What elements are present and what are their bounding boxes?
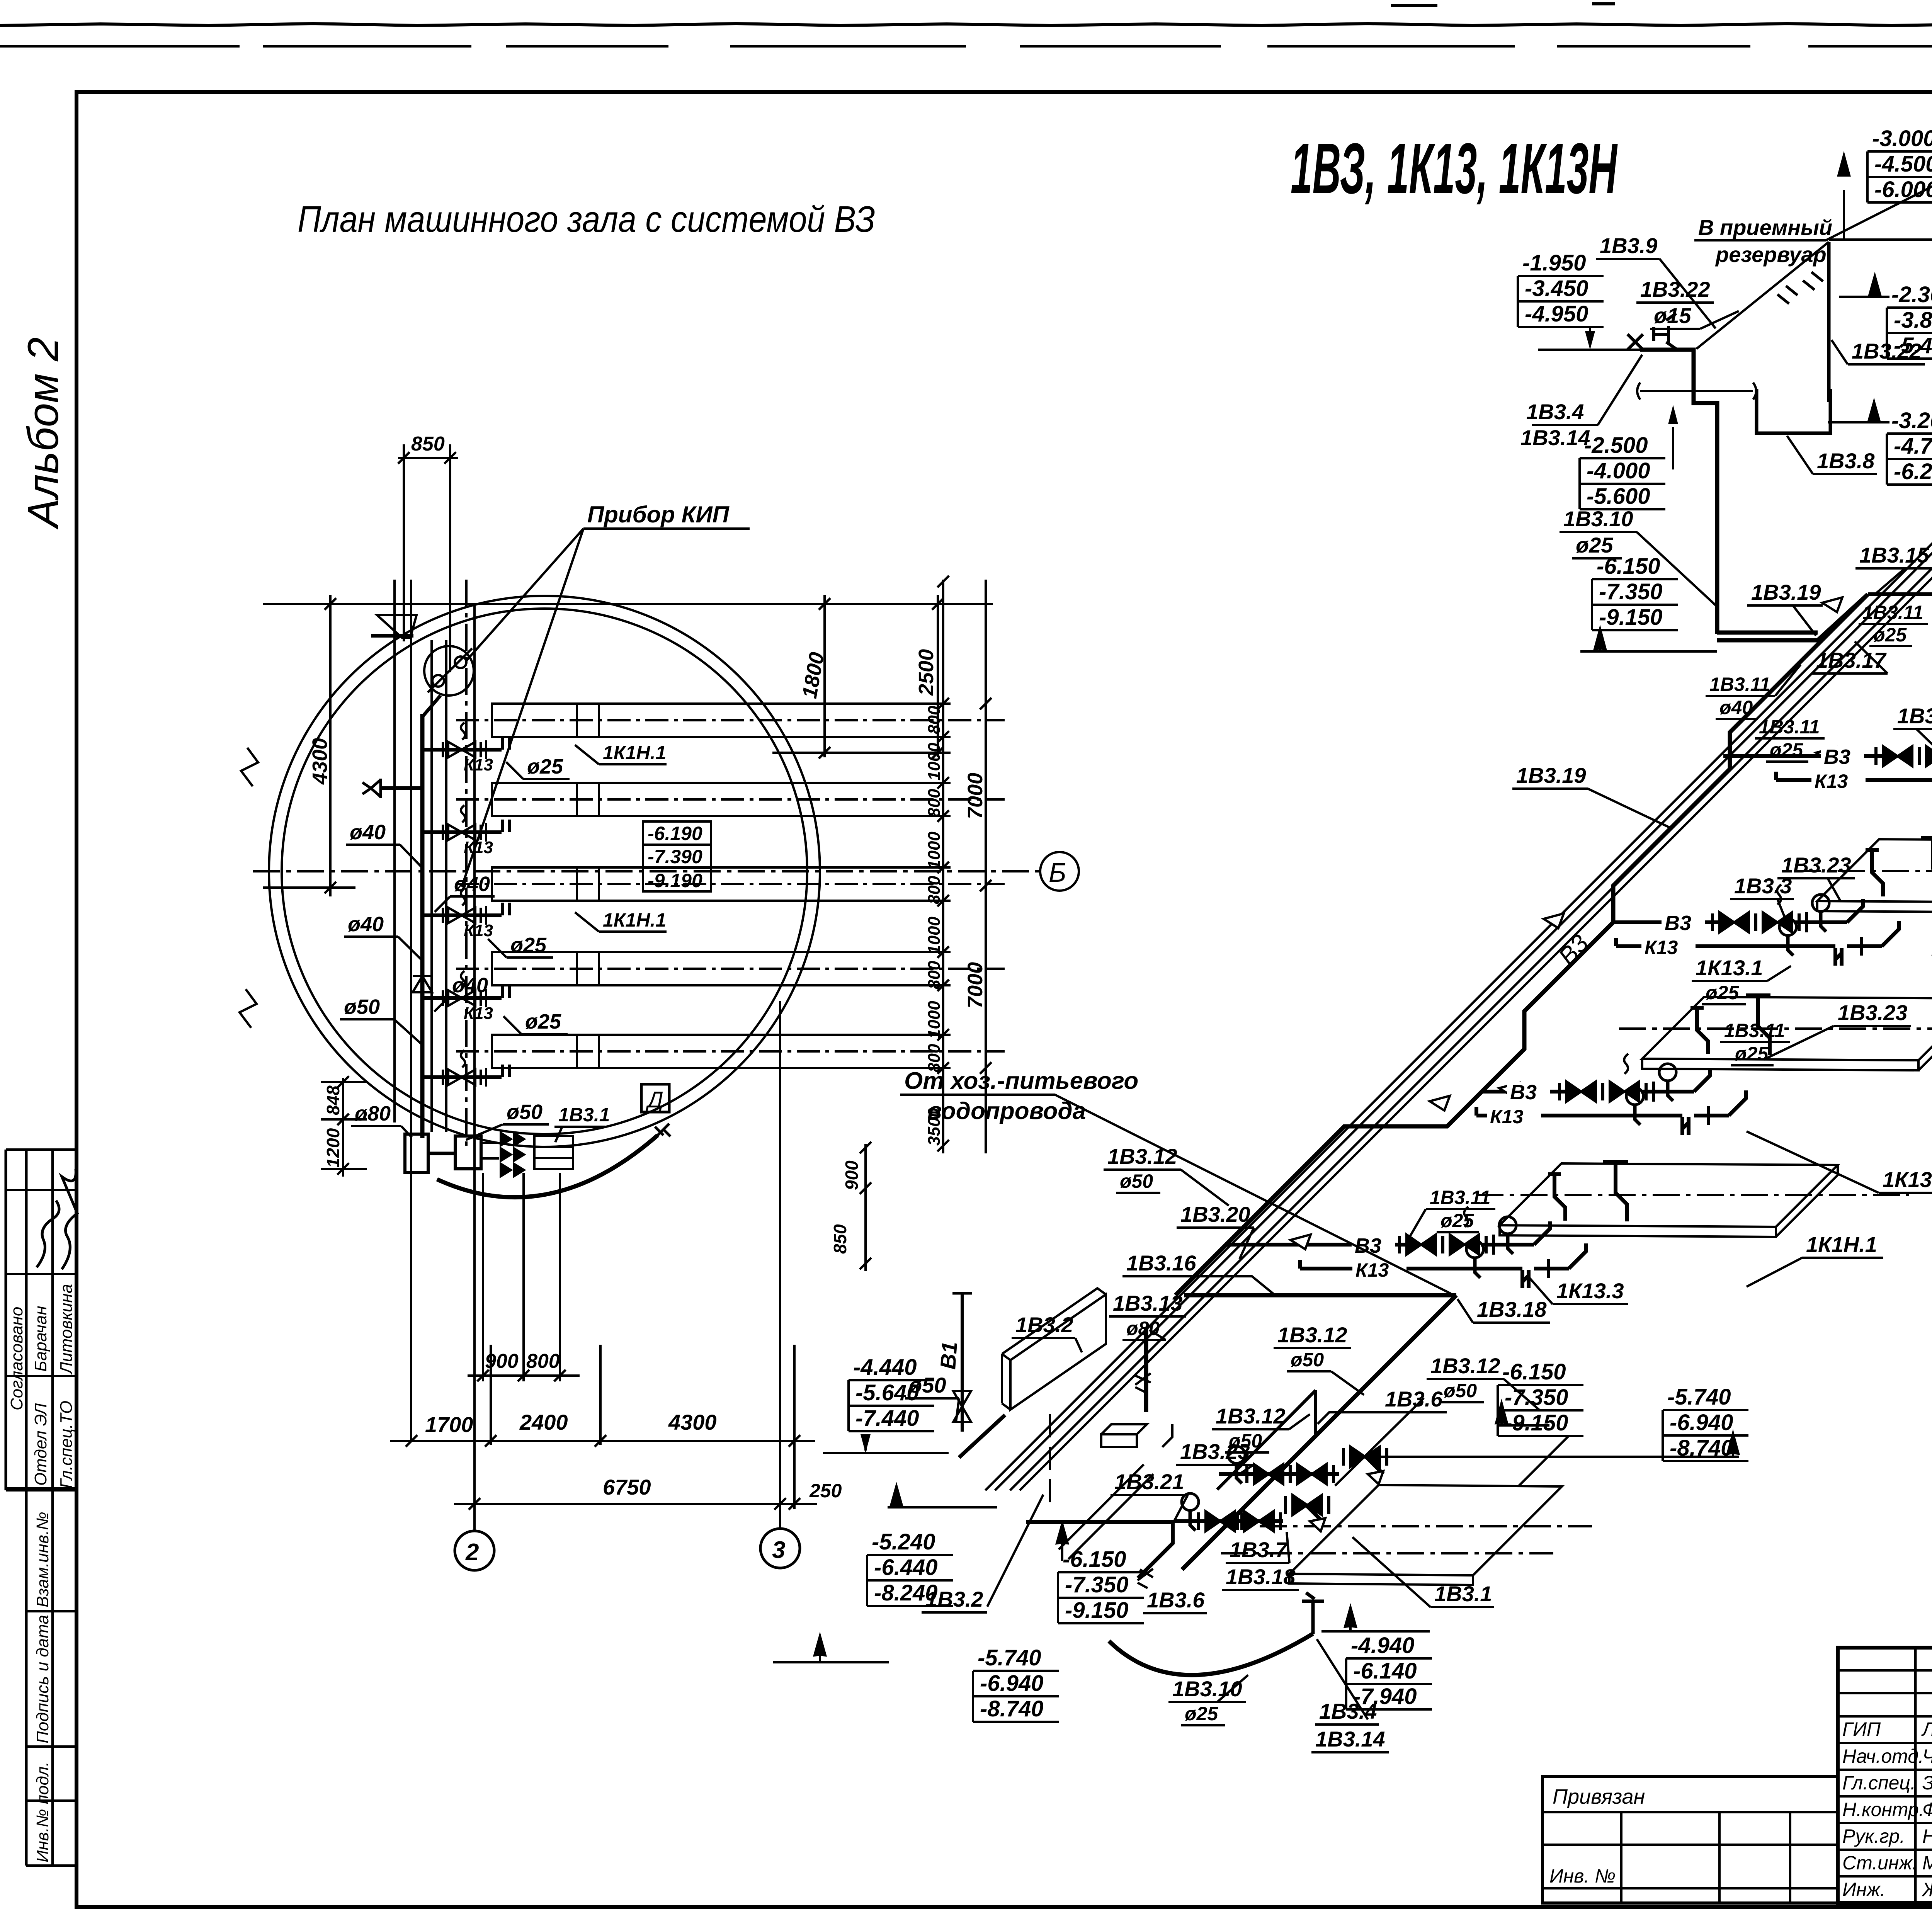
svg-text:2: 2 — [465, 1539, 479, 1566]
svg-text:1К1Н.1: 1К1Н.1 — [1806, 1232, 1877, 1257]
pump unit rectangles 1K1H.1 x5 — [492, 704, 599, 1068]
svg-text:-6.940: -6.940 — [980, 1671, 1043, 1696]
pump base slab unit 3 — [1794, 838, 1932, 913]
svg-text:-7.350: -7.350 — [1599, 579, 1662, 604]
svg-text:ø80: ø80 — [1126, 1318, 1160, 1339]
ring main thick arc — [437, 1135, 658, 1197]
svg-text:-2.500: -2.500 — [1584, 433, 1648, 458]
svg-text:250: 250 — [809, 1480, 842, 1502]
svg-text:-7.440: -7.440 — [855, 1406, 919, 1431]
svg-text:ø15: ø15 — [1654, 303, 1691, 328]
svg-text:-7.350: -7.350 — [1065, 1572, 1128, 1597]
KIP instrument circle — [424, 646, 474, 696]
dim 848 / 1200 left bottom — [342, 1078, 344, 1177]
svg-text:Инж.: Инж. — [1842, 1879, 1886, 1900]
svg-text:1В3.6: 1В3.6 — [1147, 1588, 1205, 1612]
svg-text:1В3.1: 1В3.1 — [558, 1104, 610, 1126]
column bubble 2 — [455, 1531, 494, 1570]
svg-text:В3: В3 — [1824, 745, 1850, 769]
elevation stack -2.300 — [1887, 282, 1932, 359]
svg-text:Нарыжная: Нарыжная — [1922, 1825, 1932, 1847]
svg-text:-4.500: -4.500 — [1874, 151, 1932, 177]
unit4 flow arrow — [1499, 1083, 1519, 1097]
dim extension x=1270 — [490, 1345, 492, 1445]
svg-text:1В3.5: 1В3.5 — [1897, 704, 1932, 728]
flanged pipe section near 1V3.8 — [1637, 383, 1756, 400]
check valve pairs x3 — [501, 1133, 524, 1176]
svg-text:ø50: ø50 — [344, 995, 380, 1019]
pipe 1V3.16 horizontal — [1184, 1293, 1456, 1298]
svg-text:В3: В3 — [1355, 1234, 1381, 1257]
elevation table -6.190 — [643, 821, 711, 891]
K13 branch row 2 — [422, 805, 509, 857]
dim 4300 left — [329, 595, 332, 896]
elevation stack -6.150 left bottom — [1058, 1547, 1144, 1623]
horizontal 1V3.19 link — [1717, 594, 1868, 640]
svg-text:4300: 4300 — [668, 1410, 717, 1434]
top water tap 1V3.4 piping — [1640, 350, 1818, 634]
pipe 1V3.12 diagonal — [1182, 1295, 1456, 1570]
1V3.1 valve row A — [1219, 1446, 1387, 1484]
pipe rack bundle line 4 — [1020, 358, 1932, 1490]
1V3.1 station slab — [1289, 1485, 1562, 1575]
svg-text:К13: К13 — [1815, 770, 1848, 792]
1V3.12 branch peak — [1217, 1390, 1316, 1490]
B1 supply vertical — [961, 1293, 964, 1432]
svg-text:1ВЗ, 1К13, 1К13Н: 1ВЗ, 1К13, 1К13Н — [1291, 129, 1618, 209]
svg-text:ø25: ø25 — [1735, 1043, 1769, 1065]
svg-text:-5.600: -5.600 — [1587, 484, 1650, 509]
svg-text:1В3.12: 1В3.12 — [1107, 1144, 1177, 1168]
svg-text:1В3.12: 1В3.12 — [1216, 1404, 1286, 1428]
svg-text:Б: Б — [1049, 857, 1066, 888]
svg-text:ø25: ø25 — [1770, 739, 1803, 761]
svg-text:848: 848 — [323, 1085, 343, 1115]
elevation stack -3.200 — [1887, 408, 1932, 485]
svg-text:План машинного зала с системой: План машинного зала с системой ВЗ — [298, 199, 875, 240]
svg-text:7000: 7000 — [964, 773, 987, 819]
svg-text:1В3.22: 1В3.22 — [1640, 277, 1710, 301]
svg-text:-5.740: -5.740 — [978, 1645, 1041, 1670]
svg-text:1К1Н.1: 1К1Н.1 — [603, 742, 666, 764]
svg-text:1200: 1200 — [323, 1128, 343, 1168]
label Ot khoz-pityevogo vodoprovoda — [904, 1068, 1138, 1124]
svg-text:ø25: ø25 — [1873, 624, 1907, 646]
svg-text:6750: 6750 — [603, 1475, 651, 1499]
svg-text:1В3.11: 1В3.11 — [1862, 602, 1923, 623]
svg-text:ø40: ø40 — [348, 913, 384, 936]
svg-text:3: 3 — [772, 1537, 785, 1563]
svg-text:1000: 1000 — [925, 917, 944, 954]
link B1 to panel — [959, 1415, 1005, 1458]
dim extension x=2056 — [793, 1345, 796, 1509]
svg-text:-6.150: -6.150 — [1502, 1359, 1566, 1384]
svg-text:ø40: ø40 — [1719, 697, 1753, 718]
unit2 V3 branch pipe — [1723, 754, 1887, 758]
svg-text:-6.000: -6.000 — [1874, 177, 1932, 202]
svg-text:-4.700: -4.700 — [1894, 434, 1932, 459]
B1 valve — [953, 1391, 971, 1422]
riser 1V3.22 vertical — [1827, 242, 1831, 402]
svg-text:1В3.11: 1В3.11 — [1724, 1020, 1785, 1041]
svg-text:850: 850 — [411, 433, 445, 455]
svg-text:-6.200: -6.200 — [1894, 459, 1932, 484]
elevation stack -5.240 — [867, 1529, 953, 1606]
panel 1V3.2 — [1010, 1294, 1106, 1410]
svg-text:1В3.12: 1В3.12 — [1430, 1354, 1500, 1378]
svg-text:-6.940: -6.940 — [1670, 1410, 1733, 1435]
svg-text:1000: 1000 — [925, 832, 944, 869]
svg-text:К13: К13 — [1355, 1259, 1389, 1281]
svg-text:Согласовано: Согласовано — [7, 1307, 26, 1410]
svg-text:-3.450: -3.450 — [1525, 276, 1588, 301]
pipe channel double line — [432, 640, 446, 1132]
elevation stack -1.950 — [1518, 250, 1604, 327]
flange pair on 1V3.22 — [1777, 272, 1823, 304]
svg-text:Журавлева: Журавлева — [1921, 1879, 1932, 1900]
bottom vessel 2 — [455, 1136, 481, 1169]
svg-text:Рук.гр.: Рук.гр. — [1842, 1825, 1905, 1847]
pipe chase channel lines — [1059, 1464, 1153, 1559]
unit5 V3 label — [1352, 1234, 1395, 1257]
svg-text:800: 800 — [925, 789, 944, 817]
svg-text:ø40: ø40 — [452, 974, 488, 997]
staff rows — [1838, 1743, 1932, 1876]
svg-text:1В3.2: 1В3.2 — [1015, 1313, 1073, 1337]
right dim column ticks 800/1000 — [942, 580, 944, 1153]
svg-text:Чмелев: Чмелев — [1922, 1745, 1932, 1767]
unit5 V3 branch pipe — [1226, 1243, 1410, 1247]
svg-text:-6.190: -6.190 — [648, 823, 702, 844]
svg-text:-6.140: -6.140 — [1353, 1658, 1417, 1684]
main riser pipe thick vertical — [420, 714, 425, 1138]
svg-text:-8.740: -8.740 — [980, 1696, 1043, 1721]
unit5 K13 label — [1352, 1259, 1406, 1281]
svg-text:К13: К13 — [1490, 1106, 1524, 1128]
svg-text:-2.300: -2.300 — [1891, 282, 1932, 307]
staff columns — [1915, 1648, 1932, 1903]
svg-text:К13: К13 — [1645, 937, 1678, 958]
up arrow to -3.000 stack — [1838, 155, 1849, 240]
svg-text:ø50: ø50 — [1444, 1380, 1477, 1401]
svg-text:ø50: ø50 — [1120, 1170, 1153, 1192]
svg-text:-3.200: -3.200 — [1891, 408, 1932, 433]
sleeve box on bundle — [1101, 1424, 1172, 1447]
svg-text:ø50: ø50 — [1291, 1349, 1324, 1371]
svg-text:1000: 1000 — [925, 1001, 944, 1039]
label 1V3.11 o25 unit4 — [1724, 1020, 1785, 1065]
svg-text:-9.150: -9.150 — [1065, 1598, 1128, 1623]
dim extensions for 900/800 — [483, 1173, 560, 1381]
1V3.1 valve row B — [1175, 1493, 1329, 1531]
unit5 valve cluster — [1383, 1207, 1586, 1288]
pipe vessel1-vessel2 — [428, 1152, 455, 1155]
axis Б dash-dot line — [253, 870, 1039, 872]
bottom dim row 900 800 — [468, 1374, 580, 1377]
svg-text:1В3.10: 1В3.10 — [1563, 507, 1633, 531]
svg-text:800: 800 — [925, 876, 944, 904]
svg-text:1К13.2: 1К13.2 — [1883, 1167, 1932, 1192]
svg-text:1В3.4: 1В3.4 — [1319, 1699, 1377, 1723]
elevation stack -4.940 — [1346, 1633, 1432, 1709]
svg-text:Отдел ЭЛ: Отдел ЭЛ — [31, 1403, 50, 1486]
svg-text:В приемный: В приемный — [1698, 215, 1832, 240]
unit2 flow arrow — [1816, 747, 1836, 762]
svg-text:ø50: ø50 — [909, 1373, 946, 1397]
elevation stack -5.740 bottom left — [973, 1645, 1059, 1722]
svg-text:1В3.14: 1В3.14 — [1315, 1727, 1385, 1751]
svg-text:-3.800: -3.800 — [1894, 308, 1932, 333]
unit2 K13 branch pipe — [1776, 772, 1862, 780]
svg-text:1В3.21: 1В3.21 — [1114, 1469, 1184, 1494]
pipes to check valves — [481, 1143, 499, 1158]
svg-text:1В3.17: 1В3.17 — [1816, 648, 1887, 672]
pump unit center dash-dot lines — [456, 720, 1005, 1051]
svg-text:ø25: ø25 — [1440, 1210, 1474, 1231]
unit4 K13 branch pipe — [1476, 1107, 1545, 1116]
svg-text:1В3.2: 1В3.2 — [925, 1587, 983, 1611]
svg-text:1В3.1: 1В3.1 — [1434, 1582, 1492, 1606]
svg-text:ø25: ø25 — [1185, 1703, 1218, 1725]
column axis 3 vertical — [779, 1001, 781, 1529]
wall break mark lower — [240, 989, 257, 1028]
svg-text:1В3.18: 1В3.18 — [1226, 1565, 1296, 1589]
unit1 V3 branch pipe — [1868, 592, 1932, 596]
wall break mark upper — [241, 748, 258, 786]
dim 850 top — [398, 457, 458, 459]
svg-text:1В3.9: 1В3.9 — [1600, 233, 1657, 258]
svg-text:ø25: ø25 — [1576, 533, 1613, 557]
svg-text:В3: В3 — [1665, 912, 1691, 935]
svg-text:850: 850 — [830, 1224, 850, 1254]
svg-text:1В3.7: 1В3.7 — [1230, 1537, 1288, 1562]
wall vertical line A — [393, 580, 396, 1122]
elevation stack -6.150 mid — [1498, 1359, 1583, 1436]
svg-text:1К1Н.1: 1К1Н.1 — [603, 909, 666, 931]
dim 2500 — [937, 595, 939, 757]
machine hall outer wall circle — [269, 596, 820, 1147]
bracket 1V3.8 — [1757, 389, 1830, 433]
unit4 V3 branch pipe — [1482, 1090, 1570, 1094]
svg-text:-6.440: -6.440 — [874, 1555, 937, 1580]
bottom loop 1V3.10 o25 — [1109, 1634, 1313, 1675]
unit2 valve cluster — [1860, 718, 1932, 799]
svg-text:Фомиль: Фомиль — [1922, 1799, 1932, 1820]
bottom dim row 6750 250 — [454, 1503, 817, 1505]
dim 900 / 850 below circle — [864, 1144, 867, 1271]
svg-text:Лялюк: Лялюк — [1921, 1718, 1932, 1740]
svg-text:1В3.12: 1В3.12 — [1277, 1323, 1347, 1347]
svg-text:-9.150: -9.150 — [1599, 605, 1662, 630]
svg-text:-7.390: -7.390 — [648, 846, 702, 867]
svg-text:ø40: ø40 — [454, 872, 490, 896]
svg-text:1В3.18: 1В3.18 — [1477, 1297, 1547, 1321]
svg-text:Нач.отд.: Нач.отд. — [1842, 1745, 1924, 1767]
svg-text:800: 800 — [925, 961, 944, 989]
machine hall inner wall circle — [282, 609, 807, 1134]
svg-text:1В3.13: 1В3.13 — [1113, 1291, 1183, 1315]
unit2 K13 label — [1811, 770, 1866, 792]
tap handle 1V3.4 — [1628, 313, 1676, 350]
svg-text:Ст.инж.: Ст.инж. — [1842, 1852, 1918, 1874]
unit4 valve cluster — [1543, 1054, 1746, 1135]
svg-text:ø50: ø50 — [507, 1100, 543, 1124]
top extension line y=1505 — [263, 603, 993, 605]
svg-text:В3: В3 — [1510, 1081, 1537, 1104]
svg-text:1В3.19: 1В3.19 — [1751, 580, 1821, 604]
pipe rack bundle line 1 — [985, 358, 1932, 1490]
K13 branch row 5 — [422, 1050, 509, 1087]
tee to left with flange — [381, 786, 422, 790]
K13 branch row 4 — [422, 971, 509, 1023]
svg-text:Привязан: Привязан — [1553, 1785, 1645, 1808]
svg-text:1К13.3: 1К13.3 — [1556, 1279, 1624, 1303]
svg-text:1В3.22: 1В3.22 — [1852, 339, 1922, 363]
label 1V3.11 o40 — [1709, 673, 1770, 718]
svg-text:1В3.4: 1В3.4 — [1526, 400, 1584, 424]
svg-text:К13: К13 — [464, 921, 493, 940]
tap 1V3.4 bottom — [1302, 1593, 1324, 1634]
svg-text:К13: К13 — [464, 755, 493, 774]
svg-text:Инв. №: Инв. № — [1549, 1865, 1616, 1887]
svg-text:1В3.11: 1В3.11 — [1709, 673, 1770, 695]
svg-text:Д: Д — [645, 1087, 663, 1112]
elevation stack -3.000 — [1867, 126, 1932, 202]
unit3 V3 label — [1662, 912, 1705, 935]
svg-text:К13: К13 — [464, 1004, 493, 1023]
flow arrow on main near 1V3.18 — [1430, 1096, 1450, 1111]
svg-text:Взам.инв.№: Взам.инв.№ — [33, 1512, 52, 1607]
pump rect edge extension lines to dim column — [599, 704, 951, 1068]
svg-text:ø25: ø25 — [525, 1010, 561, 1033]
wall vertical line B — [410, 580, 412, 1441]
svg-text:1В3.23: 1В3.23 — [1838, 1000, 1908, 1025]
pump base slab unit 5 — [1476, 1162, 1909, 1237]
unit4 V3 label — [1507, 1081, 1550, 1104]
main title block frame — [1838, 1648, 1932, 1903]
svg-text:-4.000: -4.000 — [1587, 458, 1650, 483]
svg-text:Литовкина: Литовкина — [57, 1284, 76, 1375]
svg-text:1000: 1000 — [925, 743, 944, 781]
dim extension x=1554 — [599, 1345, 602, 1445]
svg-text:-6.150: -6.150 — [1063, 1547, 1126, 1572]
pipe rack bundle line 2 — [995, 358, 1932, 1490]
svg-text:Майстро: Майстро — [1922, 1852, 1932, 1874]
unit3 flow arrow — [1544, 913, 1564, 928]
svg-text:1В3.20: 1В3.20 — [1180, 1202, 1250, 1226]
svg-text:1В3.23: 1В3.23 — [1180, 1439, 1250, 1464]
svg-text:900: 900 — [485, 1350, 519, 1372]
svg-text:1В3.3: 1В3.3 — [1734, 874, 1792, 898]
K13 branch row 3 — [422, 888, 509, 940]
svg-text:Инв.№ подл.: Инв.№ подл. — [33, 1762, 52, 1862]
pipe 1V3.22 diagonal o15 — [1696, 242, 1829, 349]
unit3 V3 branch pipe — [1613, 920, 1723, 924]
svg-text:Гл.спец.: Гл.спец. — [1842, 1772, 1916, 1794]
elevation stack -6.150 top — [1592, 554, 1678, 630]
svg-text:-5.740: -5.740 — [1667, 1384, 1731, 1410]
svg-text:4300: 4300 — [308, 738, 332, 785]
unit3 valve cluster — [1696, 884, 1899, 966]
axis bubble Б — [1040, 852, 1079, 891]
unit2 V3 label — [1821, 745, 1864, 769]
left attachment table — [1543, 1777, 1838, 1903]
svg-text:1В3.6: 1В3.6 — [1385, 1387, 1443, 1411]
main V3 diagonal D1 — [1175, 594, 1868, 1295]
svg-text:Н.контр.: Н.контр. — [1842, 1799, 1924, 1820]
inlet funnel at top — [377, 615, 417, 638]
svg-text:1В3.16: 1В3.16 — [1126, 1251, 1196, 1275]
svg-text:-9.190: -9.190 — [648, 870, 702, 891]
svg-text:1В3.11: 1В3.11 — [1759, 716, 1820, 738]
unit5 flow arrow — [1291, 1235, 1311, 1249]
svg-text:1К13.1: 1К13.1 — [1696, 956, 1763, 980]
svg-text:ø25: ø25 — [510, 934, 547, 957]
extension line y=1813 — [772, 752, 951, 754]
flow arrow on 1V3.11 junction — [1822, 597, 1842, 612]
svg-text:1В3.8: 1В3.8 — [1817, 449, 1875, 473]
pipe 1V3.21 horizontal — [1026, 1522, 1173, 1578]
pump base slab unit 4 — [1619, 995, 1932, 1070]
svg-text:Прибор КИП: Прибор КИП — [587, 502, 730, 527]
svg-text:ГИП: ГИП — [1842, 1718, 1881, 1740]
left margin approval table — [6, 1150, 76, 1866]
PLAN VIEW GROUP — [240, 580, 1079, 1531]
svg-text:1В3.19: 1В3.19 — [1516, 763, 1586, 787]
pipe rack bundle line 3 — [1010, 358, 1932, 1490]
svg-text:-5.240: -5.240 — [872, 1529, 935, 1554]
svg-text:ø40: ø40 — [350, 821, 386, 844]
svg-text:800: 800 — [925, 706, 944, 734]
svg-text:В1: В1 — [935, 1341, 962, 1370]
svg-text:-3.000: -3.000 — [1872, 126, 1932, 151]
svg-text:-1.950: -1.950 — [1522, 250, 1586, 276]
svg-text:ø25: ø25 — [527, 755, 563, 778]
TITLE BLOCK — [1543, 1648, 1932, 1903]
unit3 K13 branch pipe — [1616, 938, 1698, 946]
svg-text:ø80: ø80 — [355, 1102, 391, 1125]
svg-text:ø25: ø25 — [1706, 982, 1739, 1003]
svg-text:7000: 7000 — [964, 962, 987, 1009]
unit5 K13 branch pipe — [1300, 1260, 1385, 1269]
svg-text:Гл.спец.ТО: Гл.спец.ТО — [57, 1401, 76, 1488]
SCHEMATIC GROUP — [985, 155, 1932, 1490]
K13 branch row 1 — [422, 723, 509, 774]
svg-text:2400: 2400 — [519, 1410, 568, 1434]
top small grid rows — [1838, 1670, 1932, 1716]
svg-text:1В3.11: 1В3.11 — [1430, 1187, 1491, 1208]
svg-text:-4.950: -4.950 — [1525, 301, 1588, 327]
staff titles — [1842, 1718, 1932, 1900]
svg-text:Подпись и дата: Подпись и дата — [33, 1615, 52, 1743]
svg-text:1В3.14: 1В3.14 — [1520, 425, 1590, 450]
svg-text:водопровода: водопровода — [927, 1098, 1086, 1124]
svg-text:-9.150: -9.150 — [1505, 1410, 1568, 1435]
svg-text:резервуар: резервуар — [1715, 242, 1827, 267]
elevation stack -4.440 — [849, 1355, 934, 1431]
bottom dim row 1700 2400 4300 — [390, 1440, 815, 1442]
axis box Д — [641, 1084, 669, 1112]
svg-text:От хоз.-питьевого: От хоз.-питьевого — [904, 1068, 1138, 1094]
label 1V3.11 o25 unit5 — [1430, 1187, 1491, 1231]
V3 rotated label on main — [1553, 929, 1594, 971]
svg-text:1700: 1700 — [425, 1412, 473, 1437]
unit3 K13 label — [1641, 937, 1696, 958]
svg-text:Злотников: Злотников — [1922, 1772, 1932, 1794]
label 1V3.11 o25 second — [1759, 716, 1820, 761]
svg-text:Барачан: Барачан — [31, 1306, 50, 1372]
dim 1800 — [823, 595, 826, 757]
